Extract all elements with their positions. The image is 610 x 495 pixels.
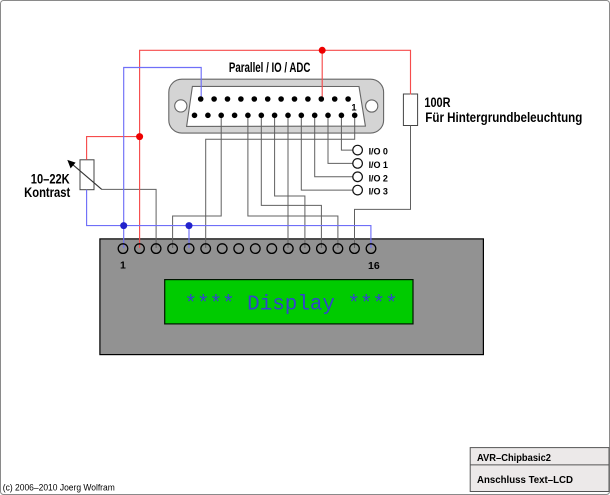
svg-text:I/O 2: I/O 2 [369,173,388,183]
svg-text:Kontrast: Kontrast [24,185,71,200]
svg-text:**** Display ****: **** Display **** [185,294,398,317]
svg-text:I/O 1: I/O 1 [369,160,388,170]
svg-text:Anschluss Text–LCD: Anschluss Text–LCD [477,475,573,486]
svg-text:1: 1 [351,103,356,113]
svg-text:Parallel / IO / ADC: Parallel / IO / ADC [229,60,311,75]
svg-text:AVR–Chipbasic2: AVR–Chipbasic2 [477,453,551,464]
svg-text:I/O 3: I/O 3 [369,187,388,197]
svg-text:1: 1 [120,260,126,272]
svg-text:(c) 2006–2010 Joerg Wolfram: (c) 2006–2010 Joerg Wolfram [3,482,115,493]
svg-text:100R: 100R [424,95,450,110]
svg-text:16: 16 [368,260,380,272]
svg-text:I/O 0: I/O 0 [369,147,388,157]
svg-text:Für Hintergrundbeleuchtung: Für Hintergrundbeleuchtung [425,110,582,125]
